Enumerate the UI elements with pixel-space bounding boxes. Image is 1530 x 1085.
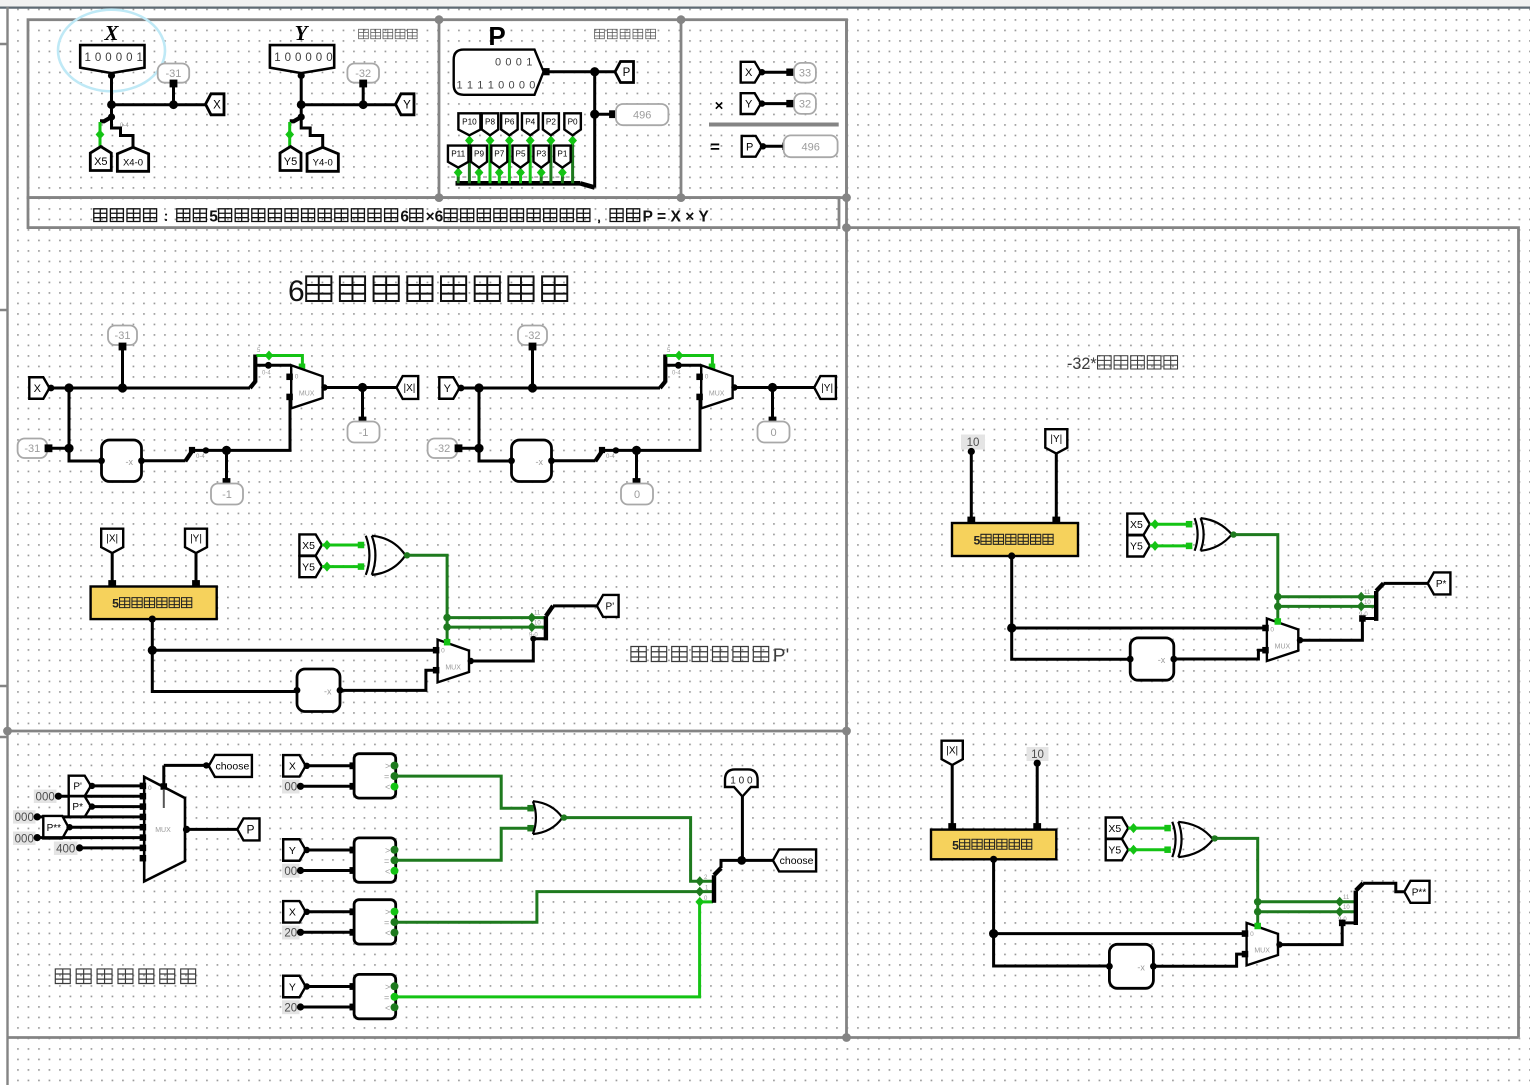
wire bit P7 (green) (498, 170, 501, 183)
svg-text:0-4: 0-4 (672, 371, 681, 377)
wire constant to comparator 1 (301, 785, 353, 788)
wire to tunnel P* (1384, 582, 1428, 585)
node branch junction (64, 383, 73, 392)
constant 400 (54, 842, 78, 856)
wire Y4-0 bits (301, 117, 323, 148)
svg-text:MUX: MUX (299, 390, 315, 397)
tunnel |X| (F) (942, 741, 963, 765)
wire to probe 496 (595, 113, 612, 116)
svg-text:MUX: MUX (709, 390, 725, 397)
wire to probe 0 (635, 450, 638, 481)
tunnel |Y| (E) (1045, 429, 1067, 453)
probe 1 0 0 (choose value) (725, 769, 758, 796)
tunnel Y (abs input) (439, 377, 459, 399)
node probe stub junction (169, 100, 178, 109)
tunnel Y5 (normal) (299, 556, 322, 577)
svg-text:0: 0 (519, 80, 525, 92)
svg-text:496: 496 (633, 110, 651, 122)
probe 496 (616, 104, 669, 125)
svg-text:-32*: -32* (1067, 355, 1097, 373)
splitter sign/rest (250, 382, 255, 389)
svg-text:<: < (385, 782, 390, 792)
svg-text:5: 5 (112, 597, 119, 611)
wire Y input down (300, 73, 303, 117)
probe -32 left (428, 439, 458, 459)
label 输入引脚区 (359, 29, 369, 39)
frame: top boxes outline (28, 20, 847, 198)
svg-text:>: > (385, 907, 390, 917)
probe -31 left (18, 439, 47, 459)
negator -x (E) (1130, 638, 1174, 680)
wire to probe below (771, 388, 774, 420)
wire 10 to multiplier E (970, 452, 973, 524)
svg-text:X: X (289, 761, 296, 773)
wire negator output (142, 459, 186, 462)
probe -31 (top) (158, 64, 190, 83)
constant 000 #2 (13, 810, 36, 823)
svg-text:P10: P10 (462, 117, 477, 126)
wire display to P pin (544, 70, 615, 73)
wire 000 #3 (37, 836, 143, 839)
wire product to MUX F input0 (994, 932, 1243, 935)
wire MUX F out bits 9-0 (1278, 923, 1356, 945)
wire to probe -1 (225, 450, 228, 481)
constant 00 (comparator 2) (282, 864, 300, 878)
comparator U2 (354, 838, 396, 882)
svg-text:P: P (246, 823, 254, 837)
node output junction (768, 383, 777, 392)
node E bit11 junction (1274, 593, 1282, 601)
svg-text:X4-0: X4-0 (123, 158, 143, 169)
node Y splitter junction (298, 113, 305, 120)
wire sign bit loop (green) (257, 356, 303, 367)
wire probe-left to branch (460, 447, 479, 450)
wire constant to comparator 2 (301, 869, 353, 872)
wire comp3 equal to bit1 (395, 892, 714, 923)
tunnel X5 (E) (1127, 514, 1150, 535)
node F bit10 junction (1254, 908, 1262, 916)
select knob (mux E) (1275, 618, 1282, 625)
svg-text:P9: P9 (474, 150, 484, 159)
svg-text:X: X (289, 907, 296, 919)
mux abs X (291, 365, 322, 408)
svg-text:1: 1 (526, 57, 532, 69)
svg-text:X5: X5 (94, 156, 107, 168)
wire probe stub (121, 348, 124, 388)
svg-text:0: 0 (126, 52, 132, 64)
mux normal case (438, 640, 469, 683)
frame: main vertical divider (845, 20, 848, 1038)
wire choose to big mux (162, 765, 165, 785)
node X input junction (107, 100, 116, 109)
wire multiplier F output (990, 856, 997, 863)
node sign bit11 junction (443, 614, 451, 622)
tunnel P9 (471, 146, 487, 168)
node lower junction (64, 444, 73, 453)
svg-text:=: = (384, 772, 389, 782)
svg-text:P**: P** (47, 823, 62, 834)
left edge tick marks (0, 44, 8, 737)
frame divider input/output area (438, 20, 441, 198)
svg-text:Y5: Y5 (1130, 541, 1143, 553)
svg-text:MUX: MUX (1275, 643, 1291, 650)
svg-text:Y: Y (295, 21, 310, 45)
pin Y (output square) (396, 94, 415, 115)
svg-text:-32: -32 (355, 68, 371, 80)
wire OR output to bit2 (562, 818, 713, 882)
select knob on MUX (709, 364, 716, 371)
tunnel Y (comparator 2) (283, 839, 306, 861)
svg-text:P': P' (773, 645, 789, 666)
svg-text:|Y|: |Y| (190, 534, 202, 545)
tunnel P5 (513, 146, 529, 168)
wire branch down to negator (479, 388, 512, 461)
svg-text:choose: choose (215, 761, 249, 773)
node probe junction lower (632, 446, 641, 455)
wire branch down to negator (69, 388, 102, 461)
pin X (output square) (206, 94, 225, 115)
wire MUX out bits 9-0 (469, 639, 546, 661)
wire X5 to XOR E (green) (1150, 523, 1192, 526)
svg-text:P7: P7 (494, 150, 504, 159)
tunnel choose (driven) (773, 849, 816, 871)
tunnel P6 (501, 113, 518, 135)
wire P to probe 496 (762, 145, 785, 148)
fraction line (709, 123, 839, 127)
wire probe -32 stub (362, 85, 365, 105)
negator -x (512, 440, 552, 482)
tunnel P8 (482, 113, 499, 135)
canvas top strip (0, 0, 1530, 7)
wire main Y (460, 387, 661, 390)
svg-text:Y: Y (444, 383, 452, 395)
svg-text:Y: Y (289, 981, 296, 993)
svg-text:32: 32 (799, 99, 811, 111)
svg-text:0: 0 (705, 373, 709, 380)
probe 496 (summary) (784, 135, 838, 157)
svg-text:|X|: |X| (946, 746, 958, 757)
wire |Y| down (195, 553, 198, 587)
svg-text:-31: -31 (24, 443, 40, 455)
node probe junction (528, 383, 537, 392)
tunnel P' (597, 595, 619, 617)
splitter bit index marks (462, 176, 466, 178)
wire Y5 to XOR E (green) (1150, 544, 1192, 547)
svg-text:1: 1 (457, 80, 463, 92)
wire |Y| to multiplier E (1055, 454, 1058, 524)
wire 10 to multiplier F (1036, 763, 1039, 829)
wire X to comparator 1 (306, 764, 353, 767)
tunnel X (comparator 3) (283, 901, 306, 923)
node bits junction (675, 362, 682, 369)
svg-text:×: × (715, 98, 724, 115)
svg-text:20: 20 (284, 1002, 297, 1014)
svg-text:0: 0 (285, 52, 291, 64)
tunnel P (summary) (742, 136, 762, 157)
text 普通情况下输出P' (631, 646, 646, 661)
tunnel choose (select) (209, 755, 252, 777)
svg-text:0: 0 (516, 57, 522, 69)
svg-text:<: < (385, 928, 390, 938)
svg-text:000: 000 (15, 812, 34, 824)
wire big mux output (183, 826, 190, 833)
wire 400 (80, 846, 143, 849)
negator -x (102, 440, 142, 482)
tunnel X5 (F) (1106, 818, 1129, 839)
mux abs Y (701, 365, 732, 408)
node product junction E (1007, 623, 1016, 632)
wire P* to mux (91, 805, 143, 808)
svg-text:P': P' (606, 602, 615, 613)
svg-text:P11: P11 (451, 150, 465, 159)
svg-text:Y: Y (745, 99, 753, 111)
svg-text:<: < (385, 866, 390, 876)
splitter X spine (100, 117, 112, 121)
tunnel |Y| (to multiplier) (185, 529, 207, 553)
wire Y5 to XOR F (green) (1128, 848, 1169, 851)
probe -1 lower (211, 484, 243, 505)
wire negator E to MUX input1 (1174, 650, 1263, 659)
svg-text:0: 0 (634, 489, 640, 501)
svg-text:-1: -1 (222, 489, 232, 501)
wire |X| down (111, 553, 114, 587)
constant 000 #3 (13, 832, 36, 846)
node lower junction (474, 444, 483, 453)
pin Y5 (280, 147, 301, 171)
svg-text:P*: P* (72, 802, 83, 813)
node probe junction lower (222, 446, 231, 455)
svg-text:-x: -x (324, 686, 332, 696)
svg-text:P: P (488, 21, 505, 51)
splitter combine P* (1374, 591, 1378, 621)
wire negator F to MUX input1 (1153, 954, 1242, 966)
select knob (normal mux) (444, 639, 451, 646)
pin Y4-0 (307, 147, 338, 171)
wire probe to choose wire (741, 797, 744, 861)
node P wire junction (590, 67, 599, 76)
probe 32 (794, 94, 816, 114)
svg-text:=: = (384, 856, 389, 866)
svg-text:=: = (384, 918, 389, 928)
svg-text:000: 000 (15, 833, 34, 845)
svg-text:P0: P0 (568, 117, 578, 126)
splitter combine P' (544, 616, 548, 640)
constant 00 (comparator 1) (282, 780, 300, 794)
svg-text:-32: -32 (525, 330, 541, 342)
svg-text:Y5: Y5 (284, 156, 297, 168)
svg-text:|Y|: |Y| (821, 383, 833, 394)
xor gate sign (F) (1172, 822, 1175, 857)
tunnel Y (comparator 4) (283, 976, 306, 998)
splitter combine choose (712, 875, 716, 903)
svg-text:Y5: Y5 (302, 561, 315, 573)
node output junction (358, 383, 367, 392)
splitter after negator (185, 450, 192, 461)
frame junction dots (435, 15, 444, 24)
wire probe -31 stub (172, 85, 175, 105)
svg-text:MUX: MUX (1254, 948, 1270, 955)
tunnel |X| (abs result) (397, 376, 419, 399)
node sign bit10 junction (443, 623, 451, 631)
svg-text:0: 0 (441, 648, 445, 655)
wire X5 to XOR F (green) (1128, 827, 1169, 830)
svg-text:P4: P4 (525, 117, 535, 126)
comparator 2 output pins (391, 846, 399, 854)
tunnel Y5 (F) (1106, 839, 1129, 860)
select stem (big mux) (163, 790, 165, 808)
tunnel X (comparator 1) (283, 755, 306, 777)
node F bit11 junction (1254, 898, 1262, 906)
tunnel P2 (543, 113, 559, 135)
wire -x to MUX input1 (195, 397, 290, 450)
svg-text:P: P (746, 141, 753, 153)
svg-text:P*: P* (1436, 579, 1447, 590)
comparator U3 (354, 900, 396, 944)
wire Y main horizontal (301, 103, 395, 106)
wire Y to comparator 2 (306, 849, 353, 852)
select knob on MUX (299, 364, 306, 371)
probe -32 top (518, 326, 547, 346)
node small junction (613, 447, 619, 453)
node bits junction (265, 362, 272, 369)
node Y input junction (297, 100, 306, 109)
wire bits 0-4 to MUX (667, 364, 702, 367)
svg-text:0: 0 (295, 52, 301, 64)
svg-text:<: < (385, 1003, 390, 1013)
probe -1 below output (348, 422, 380, 443)
svg-text:0: 0 (509, 80, 515, 92)
svg-text:11: 11 (1364, 590, 1371, 596)
tunnel X5 (normal) (299, 534, 322, 555)
svg-text:00: 00 (284, 866, 297, 878)
svg-text:0: 0 (148, 785, 152, 792)
splitter combine P** (1354, 891, 1358, 925)
constant 000 #1 (34, 790, 57, 804)
pin P (output square) (615, 62, 634, 83)
svg-text:0: 0 (295, 373, 299, 380)
wire to tunnel P' (553, 604, 597, 607)
negator -x (normal) (297, 669, 340, 712)
svg-text:P8: P8 (485, 117, 495, 126)
wire main X (50, 387, 251, 390)
node choose junction (737, 856, 746, 865)
tunnel Y5 (E) (1127, 535, 1150, 556)
mux E (1267, 619, 1298, 662)
wire probe stub (531, 348, 534, 388)
wire comp2 equal to OR (395, 828, 529, 860)
wire multiplier output (149, 616, 156, 623)
node branch junction (474, 383, 483, 392)
node product junction F (989, 929, 998, 938)
svg-text:11: 11 (1343, 895, 1350, 901)
wire sign to splitter F bit10 (1258, 910, 1355, 913)
svg-text:0: 0 (1270, 627, 1274, 634)
svg-text:0: 0 (505, 57, 511, 69)
svg-text:-1: -1 (359, 427, 369, 439)
halo around X input (58, 10, 165, 92)
wire bit P11 (green) (457, 170, 460, 183)
probe -32 (top) (347, 64, 379, 83)
wire product to MUX input0 (152, 649, 434, 652)
pin X5 (90, 147, 111, 171)
svg-text:1: 1 (274, 52, 280, 64)
frame: middle/bottom separator left half (8, 730, 847, 733)
node Y probe stub junction (359, 100, 368, 109)
svg-text:P3: P3 (536, 150, 546, 159)
svg-text:|X|: |X| (404, 383, 416, 394)
svg-text:00: 00 (284, 782, 297, 794)
svg-text:400: 400 (56, 843, 75, 855)
wire 000 #1 (58, 795, 142, 798)
probe 0 below output (758, 422, 790, 443)
svg-text:6: 6 (400, 209, 409, 226)
tunnel |Y| (abs result) (814, 376, 836, 399)
wire P down to bus (593, 72, 596, 188)
negator -x (F) (1109, 944, 1153, 988)
wire bit P9 (green) (478, 170, 481, 183)
big mux (choose) (144, 777, 185, 882)
svg-text:Y: Y (403, 99, 411, 111)
frame divider output/multiply area (680, 20, 683, 198)
svg-text:1: 1 (137, 52, 143, 64)
svg-text:=: = (384, 992, 389, 1002)
svg-text:5: 5 (974, 533, 981, 547)
svg-text:0: 0 (95, 52, 101, 64)
svg-text:1 0 0: 1 0 0 (730, 776, 753, 787)
comparator 4 output pins (391, 982, 399, 990)
svg-text:-31: -31 (115, 330, 131, 342)
wire MUX E out bits 9-0 (1298, 619, 1376, 641)
svg-text:X: X (34, 383, 42, 395)
tunnel X (summary) (741, 62, 761, 83)
wire bit P3 (green) (540, 170, 543, 183)
svg-text:-31: -31 (165, 68, 181, 80)
splitter bus spine P (456, 181, 581, 186)
tunnel Y (summary) (741, 93, 761, 114)
tunnel P7 (491, 146, 507, 168)
wire Y5 bit (green) (288, 122, 291, 147)
svg-text:=: = (710, 138, 720, 157)
svg-text:×6: ×6 (426, 209, 444, 226)
wire bit P5 (green) (519, 170, 522, 183)
wire constant to comparator 3 (301, 931, 353, 934)
wire bit P2 (green) (549, 138, 552, 183)
svg-text:P = X × Y: P = X × Y (643, 209, 710, 226)
wire negator output (552, 459, 596, 462)
wire product to MUX E input0 (1012, 627, 1263, 630)
multiplier 5位阵列乘法器 (normal) (91, 587, 217, 620)
svg-text:Y5: Y5 (1108, 844, 1121, 856)
svg-text:>: > (385, 761, 390, 771)
svg-text:P2: P2 (546, 117, 556, 126)
tunnel P (result) (237, 818, 259, 840)
svg-text:0-4: 0-4 (606, 454, 615, 460)
wire multiplier E output (1008, 552, 1015, 559)
multiplier 5位阵列乘法器 (E) (952, 523, 1078, 556)
svg-text:1: 1 (85, 52, 91, 64)
svg-text:Y4-0: Y4-0 (313, 158, 333, 169)
svg-text:X: X (213, 99, 221, 111)
wire X to probe 33 (761, 71, 789, 74)
xor gate sign (E) (1195, 518, 1198, 551)
svg-text:-x: -x (1158, 655, 1166, 665)
svg-text:0: 0 (495, 57, 501, 69)
svg-text:-32: -32 (434, 443, 450, 455)
comparator 3 output pins (391, 908, 399, 916)
or gate special (533, 801, 563, 834)
svg-text:-x: -x (126, 457, 134, 467)
svg-text:10: 10 (1343, 905, 1350, 911)
